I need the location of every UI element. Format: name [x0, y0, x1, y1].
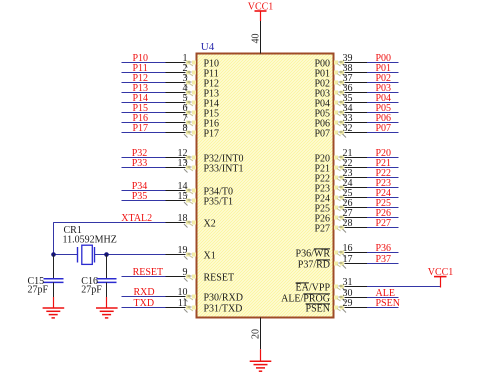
pin number 35 — [343, 93, 353, 104]
pin 7 wire (P16 left) — [122, 121, 197, 128]
net label P11 — [133, 63, 148, 74]
pin 22 wire (P21 right) — [334, 166, 399, 173]
capacitor C16 — [97, 279, 117, 283]
pin name P15 — [204, 108, 220, 119]
pin 15 wire (P35/T1 left) — [122, 199, 197, 206]
pin number 37 — [343, 73, 353, 84]
pin number 3 — [183, 73, 188, 84]
pin number 36 — [343, 83, 353, 94]
pin 2 wire (P11 left) — [122, 71, 197, 78]
svg-text:P35/T1: P35/T1 — [204, 196, 233, 207]
svg-text:P30/RXD: P30/RXD — [204, 292, 243, 303]
net label PSEN — [376, 298, 400, 309]
pin 29 wire (PSEN right) — [334, 306, 399, 313]
pin number 14 — [178, 181, 188, 192]
net label TXD — [134, 298, 155, 309]
net label P16 — [133, 113, 149, 124]
ground symbol at C15 — [43, 297, 65, 318]
pin number 30 — [343, 288, 353, 299]
label CR1 — [64, 225, 82, 236]
net label P04 — [376, 93, 392, 104]
pin number 18 — [178, 213, 188, 224]
pin 1 wire (P10 left) — [122, 61, 197, 68]
net label P00 — [376, 53, 392, 64]
pin number 26 — [343, 198, 353, 209]
net label P24 — [376, 188, 392, 199]
pin number 7 — [183, 113, 188, 124]
svg-text:27pF: 27pF — [28, 284, 49, 295]
wire C15 to ground — [53, 282, 55, 297]
net label P20 — [376, 148, 392, 159]
pin name P34/T0 — [204, 186, 233, 197]
pin number 11 — [178, 298, 188, 309]
svg-text:P33/INT1: P33/INT1 — [204, 163, 244, 174]
pin name P17 — [204, 128, 220, 139]
svg-text:31: 31 — [343, 277, 353, 288]
pin name P05 — [314, 108, 330, 119]
pin name P25 — [314, 203, 330, 214]
pin 17 wire (P37/RD right) — [334, 262, 399, 269]
pin 6 wire (P15 left) — [122, 111, 197, 118]
pin 34 wire (P05 right) — [334, 111, 399, 118]
net label RESET — [133, 267, 164, 278]
wire junction to C15 — [53, 255, 55, 279]
pin number 39 — [343, 53, 353, 64]
wire junction to C16 — [106, 255, 108, 279]
pin 26 wire (P25 right) — [334, 206, 399, 213]
pin 13 wire (P33/INT1 left) — [122, 166, 197, 173]
pin number 9 — [183, 267, 188, 278]
pin number 16 — [343, 243, 353, 254]
pin 9 wire (RESET left) — [122, 275, 197, 282]
svg-text:P36/WR: P36/WR — [296, 248, 331, 259]
pin name P14 — [204, 98, 220, 109]
svg-text:P17: P17 — [204, 128, 220, 139]
net label P22 — [376, 168, 392, 179]
pin name P22 — [314, 173, 330, 184]
net label P01 — [376, 63, 392, 74]
pin 35 wire (P04 right) — [334, 101, 399, 108]
svg-text:P17: P17 — [133, 123, 149, 134]
pin 4 wire (P13 left) — [122, 91, 197, 98]
svg-text:RESET: RESET — [204, 272, 235, 283]
pin number 29 — [343, 298, 353, 309]
pin 10 wire (P30/RXD left) — [122, 295, 197, 302]
pin name P20 — [314, 153, 330, 164]
svg-text:PSEN: PSEN — [306, 303, 330, 314]
pin 36 wire (P03 right) — [334, 91, 399, 98]
pin number 8 — [183, 123, 188, 134]
pin 30 wire (ALE/PROG right) — [334, 296, 399, 303]
IC U4 body — [197, 54, 334, 318]
pin number 40 — [251, 34, 262, 44]
pin 32 wire (P07 right) — [334, 131, 399, 138]
net label ALE — [376, 288, 395, 299]
svg-text:P33: P33 — [132, 158, 148, 169]
svg-text:P07: P07 — [314, 128, 330, 139]
pin name P16 — [204, 118, 220, 129]
net label XTAL2 — [121, 213, 152, 224]
pin number 31 — [343, 277, 353, 288]
wire XTAL2 corner — [53, 223, 55, 255]
pin 8 wire (P17 left) — [122, 131, 197, 138]
net label P25 — [376, 198, 392, 209]
pin 5 wire (P14 left) — [122, 101, 197, 108]
pin 33 wire (P06 right) — [334, 121, 399, 128]
pin name P00 — [314, 58, 330, 69]
pin name P12 — [204, 78, 220, 89]
net label P12 — [133, 73, 149, 84]
net label P05 — [376, 103, 392, 114]
svg-text:P37/RD: P37/RD — [298, 259, 330, 270]
pin 20 wire (GND) — [260, 318, 262, 350]
net label P26 — [376, 208, 392, 219]
pin name P35/T1 — [204, 196, 233, 207]
pin name P37/RD — [298, 259, 330, 270]
pin name P33/INT1 — [204, 163, 244, 174]
pin number 34 — [343, 103, 353, 114]
svg-text:16: 16 — [343, 243, 353, 254]
svg-text:11.0592MHZ: 11.0592MHZ — [63, 235, 117, 246]
pin name P06 — [314, 118, 330, 129]
net label P07 — [376, 123, 392, 134]
svg-text:9: 9 — [183, 267, 188, 278]
junction node X1/C16 — [104, 252, 109, 257]
pin 40 wire (VCC) — [260, 21, 262, 54]
pin number 25 — [343, 188, 353, 199]
pin number 12 — [178, 148, 188, 159]
net label P37 — [376, 254, 392, 265]
value 11.0592MHZ — [63, 235, 117, 246]
pin 28 wire (P27 right) — [334, 226, 399, 233]
net label P34 — [132, 181, 148, 192]
net label P17 — [133, 123, 149, 134]
pin 19 wire (X1 left) — [107, 253, 196, 260]
svg-text:RXD: RXD — [134, 287, 155, 298]
svg-text:29: 29 — [343, 298, 353, 309]
value 27pF (C16) — [81, 284, 102, 295]
pin number 2 — [183, 63, 188, 74]
capacitor C15 — [44, 279, 64, 283]
svg-text:P35: P35 — [132, 191, 148, 202]
svg-text:40: 40 — [251, 34, 262, 44]
pin name P01 — [314, 68, 330, 79]
pin number 27 — [343, 208, 353, 219]
net label P23 — [376, 178, 392, 189]
pin name PSEN — [306, 303, 330, 314]
pin number 15 — [178, 191, 188, 202]
pin name P02 — [314, 78, 330, 89]
pin name P24 — [314, 193, 330, 204]
wire crystal right lead — [95, 254, 107, 256]
svg-text:X2: X2 — [204, 218, 216, 229]
designator U4 — [201, 41, 215, 53]
net label P33 — [132, 158, 148, 169]
net label P27 — [376, 218, 392, 229]
svg-text:17: 17 — [343, 254, 353, 265]
pin name P11 — [204, 68, 219, 79]
pin number 32 — [343, 123, 353, 134]
net label P35 — [132, 191, 148, 202]
svg-text:TXD: TXD — [134, 298, 155, 309]
net label P32 — [132, 148, 148, 159]
value 27pF (C15) — [28, 284, 49, 295]
pin number 5 — [183, 93, 188, 104]
wire C16 to ground — [106, 282, 108, 297]
wire crystal left lead — [54, 254, 78, 256]
pin 3 wire (P12 left) — [122, 81, 197, 88]
svg-text:8: 8 — [183, 123, 188, 134]
pin 31 wire (EA/VPP right) — [334, 285, 441, 292]
pin number 23 — [343, 168, 353, 179]
svg-text:19: 19 — [178, 245, 188, 256]
label C16 — [81, 276, 98, 287]
pin name P21 — [314, 163, 330, 174]
pin 24 wire (P23 right) — [334, 186, 399, 193]
svg-text:P36: P36 — [376, 243, 392, 254]
net label P21 — [376, 158, 392, 169]
pin name P10 — [204, 58, 220, 69]
pin 12 wire (P32/INT0 left) — [122, 156, 197, 163]
net label P06 — [376, 113, 392, 124]
net label P36 — [376, 243, 392, 254]
pin number 24 — [343, 178, 353, 189]
svg-text:13: 13 — [178, 158, 188, 169]
pin number 38 — [343, 63, 353, 74]
net label P02 — [376, 73, 392, 84]
svg-text:28: 28 — [343, 218, 353, 229]
net label P15 — [133, 103, 149, 114]
svg-text:32: 32 — [343, 123, 353, 134]
svg-text:PSEN: PSEN — [376, 298, 400, 309]
svg-text:P37: P37 — [376, 254, 392, 265]
svg-text:U4: U4 — [201, 41, 215, 53]
junction node XTAL2/C15 — [51, 252, 56, 257]
svg-text:15: 15 — [178, 191, 188, 202]
svg-text:20: 20 — [251, 329, 262, 339]
pin 37 wire (P02 right) — [334, 81, 399, 88]
svg-text:P27: P27 — [314, 223, 330, 234]
pin number 19 — [178, 245, 188, 256]
pin number 10 — [178, 287, 188, 298]
pin 21 wire (P20 right) — [334, 156, 399, 163]
net label P03 — [376, 83, 392, 94]
pin number 22 — [343, 158, 353, 169]
pin name ALE/PROG — [281, 293, 330, 304]
pin name P04 — [314, 98, 330, 109]
net label RXD — [134, 287, 155, 298]
power port VCC1 right (EA/VPP) — [428, 267, 454, 288]
ground symbol at pin 20 — [250, 349, 272, 371]
pin 18 wire (X2 left) — [53, 221, 196, 228]
pin name P23 — [314, 183, 330, 194]
pin name P07 — [314, 128, 330, 139]
pin 38 wire (P01 right) — [334, 71, 399, 78]
svg-text:P31/TXD: P31/TXD — [204, 303, 243, 314]
pin number 21 — [343, 148, 353, 159]
svg-text:RESET: RESET — [133, 267, 164, 278]
pin name RESET — [204, 272, 235, 283]
svg-text:P27: P27 — [376, 218, 392, 229]
net label P10 — [133, 53, 149, 64]
pin name P13 — [204, 88, 220, 99]
pin 11 wire (P31/TXD left) — [122, 306, 197, 313]
pin name P31/TXD — [204, 303, 243, 314]
pin name P27 — [314, 223, 330, 234]
crystal CR1 — [78, 245, 95, 264]
pin 25 wire (P24 right) — [334, 196, 399, 203]
pin number 17 — [343, 254, 353, 265]
pin name P36/WR — [296, 248, 331, 259]
svg-text:EA/VPP: EA/VPP — [296, 282, 331, 293]
pin number 6 — [183, 103, 188, 114]
pin 23 wire (P22 right) — [334, 176, 399, 183]
svg-text:10: 10 — [178, 287, 188, 298]
pin number 4 — [183, 83, 188, 94]
svg-text:XTAL2: XTAL2 — [121, 213, 152, 224]
pin 27 wire (P26 right) — [334, 216, 399, 223]
ground symbol at C16 — [96, 297, 118, 318]
pin number 20 — [251, 329, 262, 339]
pin number 13 — [178, 158, 188, 169]
pin 14 wire (P34/T0 left) — [122, 189, 197, 196]
pin 39 wire (P00 right) — [334, 61, 399, 68]
pin name P30/RXD — [204, 292, 243, 303]
svg-text:27pF: 27pF — [81, 284, 102, 295]
svg-text:11: 11 — [178, 298, 188, 309]
pin name X1 — [204, 250, 216, 261]
pin number 28 — [343, 218, 353, 229]
svg-text:P07: P07 — [376, 123, 392, 134]
net label P13 — [133, 83, 149, 94]
pin name P26 — [314, 213, 330, 224]
svg-text:X1: X1 — [204, 250, 216, 261]
power port VCC1 top — [248, 2, 274, 22]
pin name X2 — [204, 218, 216, 229]
pin 16 wire (P36/WR right) — [334, 251, 399, 258]
pin name EA/VPP — [296, 282, 331, 293]
svg-text:18: 18 — [178, 213, 188, 224]
pin number 33 — [343, 113, 353, 124]
pin number 1 — [183, 53, 188, 64]
label C15 — [28, 276, 45, 287]
pin name P03 — [314, 88, 330, 99]
net label P14 — [133, 93, 149, 104]
pin name P32/INT0 — [204, 153, 244, 164]
